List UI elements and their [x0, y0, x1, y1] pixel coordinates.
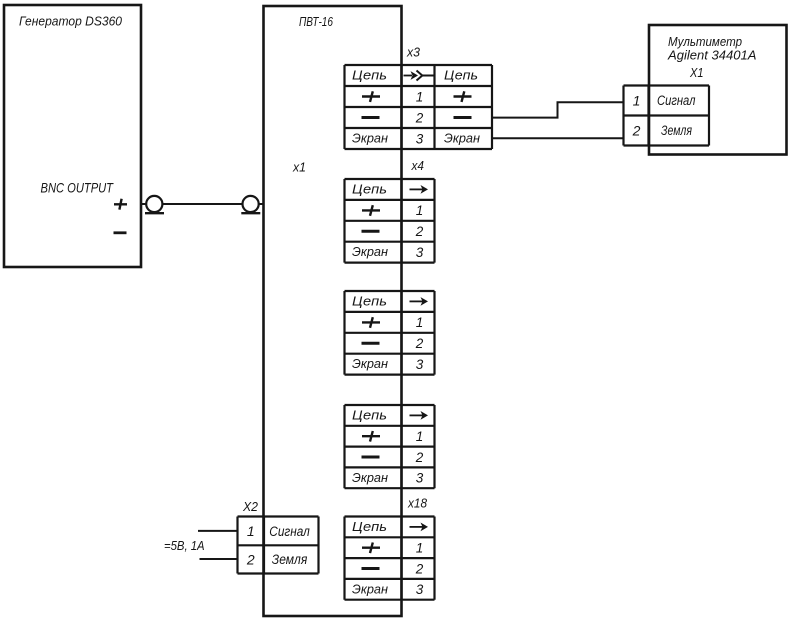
- svg-text:Цепь: Цепь: [352, 69, 387, 83]
- svg-text:2: 2: [415, 561, 424, 576]
- device box ПВТ-16: [264, 6, 402, 616]
- X5 header cell Цепь: [352, 294, 387, 308]
- connector X1 table frame: [624, 86, 710, 146]
- wire stub from generator +: [141, 203, 146, 205]
- svg-text:2: 2: [415, 224, 424, 239]
- svg-text:3: 3: [416, 245, 424, 260]
- terminal + of generator: [114, 199, 127, 210]
- svg-text:Экран: Экран: [352, 245, 388, 259]
- X4 row - pin 2: [362, 224, 424, 239]
- wire stub into ПВТ-16: [259, 203, 264, 205]
- label x4: [411, 159, 424, 173]
- X18 header cell Цепь: [352, 520, 387, 534]
- wire X3 pin2 minus to multimeter X1 pin1 Сигнал: [492, 102, 624, 117]
- svg-text:Цепь: Цепь: [444, 69, 478, 83]
- svg-text:1: 1: [416, 89, 424, 104]
- svg-text:Экран: Экран: [352, 132, 388, 146]
- X6 header cell Цепь: [352, 408, 387, 422]
- label X2: [242, 500, 258, 514]
- X4 header cell Цепь: [352, 182, 387, 196]
- terminal - of generator: [114, 231, 127, 234]
- X1 pin 2 Земля: [632, 123, 692, 139]
- svg-text:Экран: Экран: [444, 132, 480, 146]
- X4 row Экран pin 3: [352, 245, 424, 260]
- svg-text:X1: X1: [689, 65, 703, 80]
- svg-text:3: 3: [416, 582, 424, 597]
- svg-text:2: 2: [246, 551, 255, 567]
- svg-text:x18: x18: [407, 497, 427, 511]
- multimeter box Мультиметр Agilent 34401A: [649, 25, 787, 155]
- svg-text:3: 3: [416, 131, 424, 146]
- X6 direction arrow: [410, 411, 429, 420]
- connector X4 table frame: [345, 179, 435, 263]
- connector X3 table frame: [345, 65, 493, 149]
- label BNC OUTPUT: [41, 180, 115, 196]
- X18 row - pin 2: [362, 561, 424, 576]
- svg-text:ПВТ-16: ПВТ-16: [299, 15, 333, 29]
- wire to X2 pin 1: [198, 530, 238, 532]
- svg-text:Земля: Земля: [272, 552, 308, 567]
- svg-text:3: 3: [416, 357, 424, 372]
- svg-text:Сигнал: Сигнал: [657, 93, 696, 108]
- svg-text:1: 1: [416, 315, 424, 330]
- X6 row + pin 1: [362, 429, 423, 444]
- svg-text:Экран: Экран: [352, 582, 388, 596]
- label x3: [406, 46, 420, 60]
- X3 header cell Цепь: [352, 69, 387, 83]
- svg-text:2: 2: [415, 336, 424, 351]
- connector X18 table frame: [345, 517, 435, 600]
- X18 row + pin 1: [362, 541, 423, 556]
- X3 mating contacts symbol: [404, 71, 434, 81]
- svg-text:1: 1: [416, 429, 424, 444]
- X5 row Экран pin 3: [352, 357, 424, 372]
- X6 row - pin 2: [362, 450, 424, 465]
- svg-text:Цепь: Цепь: [352, 408, 387, 422]
- svg-text:x3: x3: [406, 46, 420, 60]
- label ПВТ-16: [299, 15, 333, 29]
- BNC coax connector plug right: [241, 196, 260, 213]
- X5 row - pin 2: [362, 336, 424, 351]
- X3 row - pin 2: [362, 110, 472, 125]
- label x1: [292, 161, 306, 175]
- X18 direction arrow: [410, 523, 429, 532]
- svg-text:BNC OUTPUT: BNC OUTPUT: [41, 180, 115, 196]
- X5 direction arrow: [410, 297, 429, 306]
- svg-text:Цепь: Цепь: [352, 520, 387, 534]
- svg-text:Экран: Экран: [352, 357, 388, 371]
- svg-text:X2: X2: [242, 500, 258, 514]
- svg-text:1: 1: [416, 541, 424, 556]
- X3 row Экран pin 3: [352, 131, 480, 146]
- BNC coax connector plug left: [145, 196, 164, 213]
- svg-text:x1: x1: [292, 161, 306, 175]
- svg-text:3: 3: [416, 471, 424, 486]
- wire to X2 pin 2: [200, 558, 238, 560]
- svg-text:Сигнал: Сигнал: [269, 524, 310, 539]
- coax cable wire between connectors: [162, 203, 242, 205]
- svg-text:2: 2: [415, 450, 424, 465]
- connector X2 table frame: [238, 517, 319, 574]
- X3 row + pin 1: [362, 89, 472, 104]
- svg-text:1: 1: [247, 523, 255, 539]
- svg-text:1: 1: [633, 93, 641, 109]
- X5 row + pin 1: [362, 315, 423, 330]
- svg-text:Цепь: Цепь: [352, 294, 387, 308]
- svg-text:2: 2: [415, 110, 424, 125]
- label Мультиметр: [668, 35, 742, 49]
- svg-text:=5В, 1А: =5В, 1А: [164, 539, 205, 553]
- X1 pin 1 Сигнал: [633, 93, 696, 109]
- label =5В, 1А power supply: [164, 539, 205, 553]
- generator box A1 Генератор DS360: [4, 5, 141, 267]
- connector X5 table frame: [345, 291, 435, 375]
- X2 pin 1 Сигнал: [247, 523, 310, 539]
- X2 pin 2 Земля: [246, 551, 307, 567]
- X4 row + pin 1: [362, 203, 423, 218]
- label x18: [407, 497, 427, 511]
- X4 direction arrow: [410, 185, 429, 194]
- svg-text:1: 1: [416, 203, 424, 218]
- svg-text:x4: x4: [411, 159, 424, 173]
- label Agilent 34401A: [667, 47, 757, 62]
- connector X6 table frame: [345, 405, 435, 488]
- svg-text:Цепь: Цепь: [352, 182, 387, 196]
- svg-text:Генератор DS360: Генератор DS360: [19, 15, 122, 29]
- svg-text:Agilent 34401A: Agilent 34401A: [667, 47, 757, 62]
- svg-text:Экран: Экран: [352, 471, 388, 485]
- label X1: [689, 65, 703, 80]
- svg-text:2: 2: [632, 123, 641, 139]
- wire X3 pin3 Экран to multimeter X1 pin2 Земля: [492, 137, 624, 139]
- label Генератор DS360: [19, 15, 122, 29]
- X3 right header cell Цепь: [444, 69, 478, 83]
- X6 row Экран pin 3: [352, 471, 424, 486]
- X18 row Экран pin 3: [352, 582, 424, 597]
- svg-text:Земля: Земля: [661, 123, 692, 138]
